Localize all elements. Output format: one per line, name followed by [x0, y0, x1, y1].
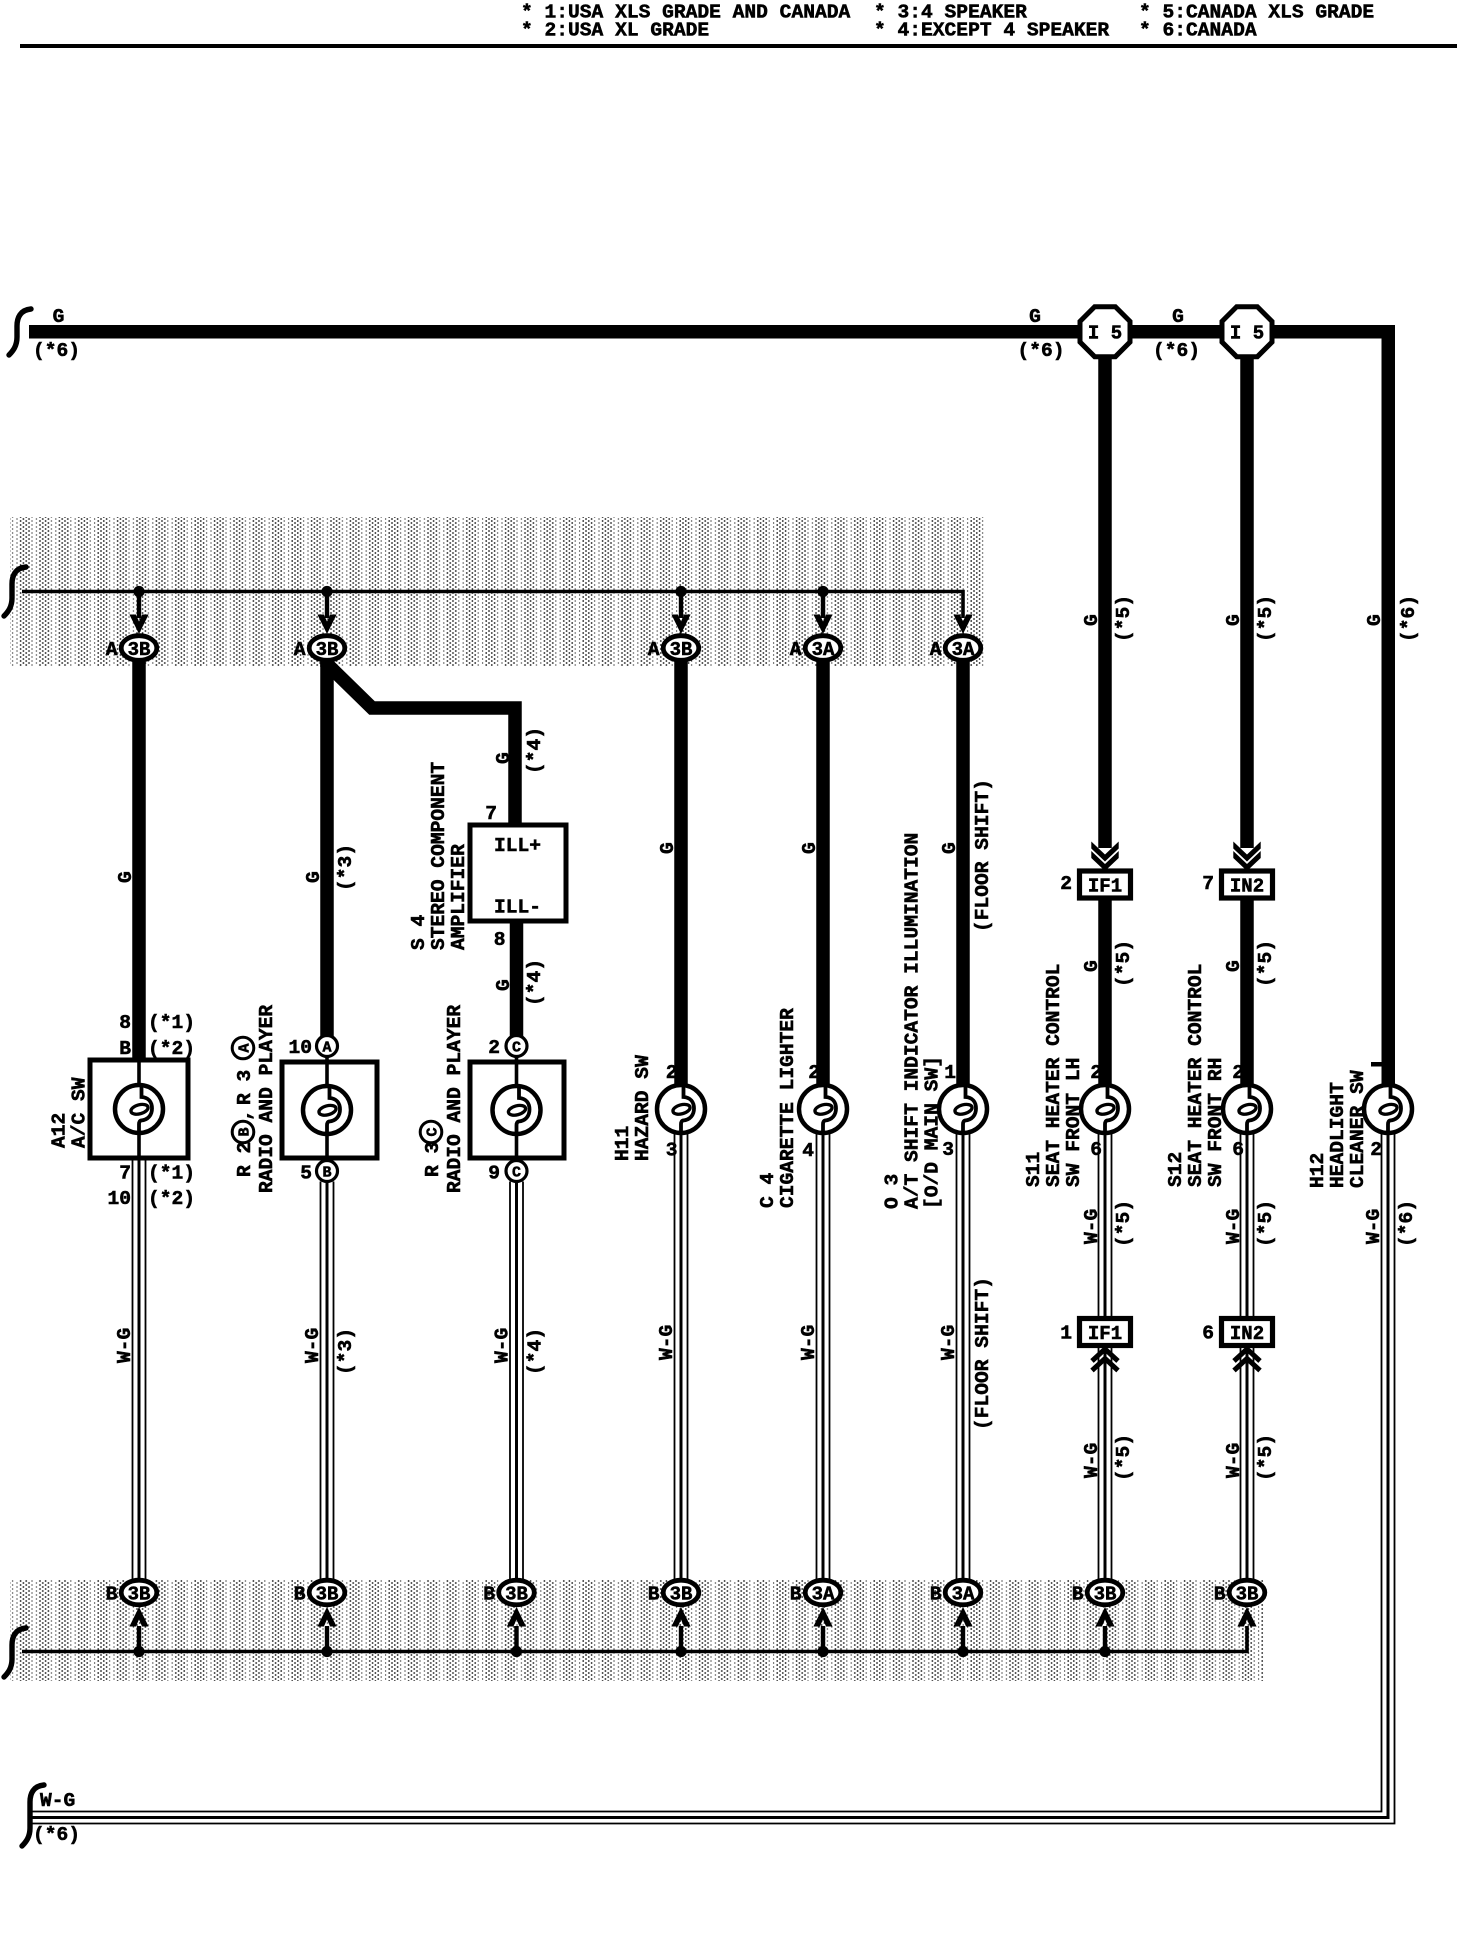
label G wire amp lower — [493, 979, 515, 991]
svg-text:HAZARD SW: HAZARD SW — [632, 1055, 654, 1161]
branch wire bottom band C6 — [961, 1626, 965, 1652]
svg-text:7: 7 — [1202, 873, 1214, 895]
svg-text:7: 7 — [485, 803, 497, 825]
svg-text:A: A — [930, 639, 942, 661]
svg-text:8: 8 — [119, 1012, 131, 1034]
svg-text:3B: 3B — [505, 1584, 528, 1606]
svg-text:A/T SHIFT INDICATOR ILLUMINATI: A/T SHIFT INDICATOR ILLUMINATION — [902, 833, 924, 1209]
pins seat heater LH — [1090, 1062, 1102, 1161]
svg-text:G: G — [493, 979, 515, 991]
label W-G (*5) wire S12 lower — [1223, 1434, 1277, 1481]
svg-text:3A: 3A — [952, 639, 975, 661]
svg-text:R 3: R 3 — [234, 1070, 256, 1105]
wire through radio R3 — [515, 1056, 519, 1161]
svg-text:ILL-: ILL- — [494, 897, 541, 919]
svg-text:3B: 3B — [316, 639, 339, 661]
wire G to A/C SW — [132, 659, 146, 1060]
wire G to radio R2 — [320, 659, 334, 1036]
arrow chevrons into IN2 — [1233, 842, 1260, 872]
svg-text:2: 2 — [808, 1062, 820, 1084]
svg-text:3B: 3B — [128, 639, 151, 661]
wire G amp to radio R3 — [510, 921, 524, 1036]
label (*4) wire amp upper — [524, 727, 546, 774]
label G wire S11 lower — [1081, 960, 1103, 972]
label (*6) top-left — [33, 340, 80, 362]
svg-text:6: 6 — [1202, 1323, 1214, 1345]
svg-text:C 4: C 4 — [757, 1172, 779, 1208]
svg-text:3A: 3A — [812, 639, 835, 661]
svg-text:9: 9 — [488, 1163, 500, 1185]
wire W-G from hazard — [675, 1134, 688, 1580]
svg-text:3A: 3A — [812, 1584, 835, 1606]
label W-G wire lighter — [798, 1325, 820, 1360]
svg-text:W-G: W-G — [938, 1325, 960, 1360]
svg-text:6: 6 — [1090, 1139, 1102, 1161]
connector B 3B at x=327 — [294, 1580, 345, 1605]
svg-text:(*5): (*5) — [1113, 1434, 1135, 1481]
svg-text:G: G — [1172, 306, 1184, 328]
branch wire bottom band C2 — [325, 1626, 329, 1652]
svg-text:(*5): (*5) — [1113, 1200, 1135, 1247]
svg-text:R 2: R 2 — [234, 1142, 256, 1177]
arrow into connector C2 — [317, 615, 336, 635]
svg-text:5: 5 — [300, 1163, 312, 1185]
svg-text:(*6): (*6) — [1153, 340, 1200, 362]
svg-text:3: 3 — [942, 1139, 954, 1161]
arrow into ground connector C3 — [507, 1607, 526, 1627]
svg-text:W-G: W-G — [1223, 1443, 1245, 1478]
svg-text:4: 4 — [802, 1140, 814, 1162]
label S11 seat heater control LH — [1023, 964, 1085, 1187]
svg-text:(*6): (*6) — [1398, 595, 1420, 642]
svg-text:H12: H12 — [1307, 1153, 1329, 1188]
label (*5) wire S11 lower — [1113, 940, 1135, 987]
junction dot top band C1 — [133, 586, 144, 597]
svg-text:W-G: W-G — [656, 1325, 678, 1360]
svg-text:* 4:EXCEPT 4 SPEAKER: * 4:EXCEPT 4 SPEAKER — [874, 20, 1109, 42]
svg-text:A: A — [237, 1043, 254, 1052]
svg-text:3B: 3B — [1236, 1584, 1259, 1606]
svg-text:3B: 3B — [316, 1584, 339, 1606]
wire W-G headlight cleaner run — [32, 1134, 1395, 1824]
junction dot top band C5 — [817, 586, 828, 597]
label W-G wire A12 — [114, 1328, 136, 1363]
lamp headlight cleaner SW — [1364, 1085, 1412, 1133]
label (FLOOR SHIFT) lower — [972, 1277, 994, 1430]
svg-text:1: 1 — [1060, 1323, 1072, 1345]
continuation brace bottom band — [4, 1628, 26, 1677]
pins A/T shift indicator — [942, 1062, 956, 1161]
svg-text:G: G — [1081, 960, 1103, 972]
svg-text:(*5): (*5) — [1113, 595, 1135, 642]
svg-text:(*1): (*1) — [148, 1163, 195, 1185]
svg-text:3B: 3B — [1094, 1584, 1117, 1606]
arrow into connector C1 — [129, 615, 148, 635]
label G wire A/T — [939, 842, 961, 854]
connector pin C radio R3 top — [488, 1036, 527, 1060]
connector IF1 upper — [1060, 871, 1130, 898]
radio R2 box — [282, 1062, 377, 1158]
branch wire bottom band C3 — [514, 1626, 518, 1652]
svg-text:(*2): (*2) — [148, 1038, 195, 1060]
svg-text:W-G: W-G — [302, 1328, 324, 1363]
svg-text:W-G: W-G — [1081, 1443, 1103, 1478]
svg-text:2: 2 — [666, 1062, 678, 1084]
svg-text:6: 6 — [1232, 1139, 1244, 1161]
svg-text:IN2: IN2 — [1230, 876, 1264, 898]
svg-text:(*4): (*4) — [524, 727, 546, 774]
label W-G wire A/T — [938, 1325, 960, 1360]
label (*6) bottom-left — [33, 1824, 80, 1846]
svg-text:W-G: W-G — [114, 1328, 136, 1363]
svg-text:3B: 3B — [128, 1584, 151, 1606]
svg-text:(*5): (*5) — [1255, 595, 1277, 642]
svg-text:2: 2 — [488, 1037, 500, 1059]
svg-text:(FLOOR SHIFT): (FLOOR SHIFT) — [972, 779, 994, 932]
connector A 3A (A/T feed) — [930, 636, 981, 661]
label W-G bottom-left — [40, 1790, 75, 1812]
svg-text:2: 2 — [1370, 1139, 1382, 1161]
junction dot bottom band C3 — [511, 1646, 522, 1657]
pin dash headlight cleaner — [1371, 1062, 1386, 1067]
svg-text:I 5: I 5 — [1088, 323, 1122, 345]
svg-text:R 3: R 3 — [422, 1142, 444, 1177]
hatched background band upper — [10, 517, 986, 666]
svg-text:G: G — [493, 752, 515, 764]
A/C SW box — [90, 1060, 188, 1158]
label G wire radio — [303, 871, 325, 883]
label O3 A/T shift indicator illumination — [882, 833, 944, 1209]
connector A 3B (A12 feed) — [106, 636, 157, 661]
arrow into ground connector C5 — [813, 1607, 832, 1627]
svg-text:A/C SW: A/C SW — [69, 1077, 91, 1148]
label H11 hazard SW — [612, 1055, 654, 1161]
wire G IN2 to S12 — [1240, 897, 1254, 1084]
label W-G (*5) wire S11 upper — [1081, 1200, 1135, 1247]
svg-text:(*6): (*6) — [33, 340, 80, 362]
svg-text:S12: S12 — [1165, 1152, 1187, 1187]
arrow into ground connector C2 — [317, 1607, 336, 1627]
svg-text:G: G — [1364, 614, 1386, 626]
label G wire S12 — [1223, 614, 1245, 626]
wire G drop S12 — [1240, 350, 1254, 848]
label G wire amp upper — [493, 752, 515, 764]
arrow chevrons from IN2 — [1234, 1349, 1260, 1371]
svg-text:(*5): (*5) — [1255, 1200, 1277, 1247]
svg-text:3B: 3B — [670, 639, 693, 661]
radio R3 box — [470, 1062, 564, 1158]
svg-text:(*4): (*4) — [524, 959, 546, 1006]
svg-text:B: B — [294, 1584, 306, 1606]
svg-text:SEAT HEATER CONTROL: SEAT HEATER CONTROL — [1185, 964, 1207, 1187]
svg-text:SW FRONT RH: SW FRONT RH — [1205, 1058, 1227, 1187]
svg-text:(*3): (*3) — [335, 844, 357, 891]
connector pin C radio R3 bottom — [488, 1161, 527, 1185]
label (*6) wire H12 — [1398, 595, 1420, 642]
svg-text:W-G: W-G — [1363, 1209, 1385, 1244]
svg-text:(*5): (*5) — [1255, 1434, 1277, 1481]
arrow into ground connector C1 — [129, 1607, 148, 1627]
svg-text:B: B — [322, 1165, 331, 1182]
label R2 radio and player — [232, 1005, 278, 1193]
label A12 A/C SW — [49, 1077, 91, 1148]
label W-G (*5) wire S11 lower — [1081, 1434, 1135, 1481]
label G wire A12 — [115, 871, 137, 883]
svg-text:3B: 3B — [670, 1584, 693, 1606]
pin 7 amplifier — [485, 803, 497, 825]
connector IN2 lower — [1202, 1319, 1272, 1346]
branch wire bottom band C1 — [137, 1626, 141, 1652]
label G wire S12 lower — [1223, 960, 1245, 972]
junction dot bottom band C4 — [675, 1646, 686, 1657]
branch wire top band C2 — [325, 592, 329, 619]
connector A 3B (hazard feed) — [648, 636, 699, 661]
svg-text:B: B — [930, 1584, 942, 1606]
wire G to hazard SW — [674, 659, 688, 1084]
arrow into ground connector C6 — [953, 1607, 972, 1627]
arrow into connector C5 — [813, 615, 832, 635]
label W-G (*6) wire H12 — [1363, 1200, 1418, 1247]
svg-text:G: G — [657, 842, 679, 854]
pin 8 amplifier — [494, 929, 506, 951]
label (*3) wire radio — [335, 844, 357, 891]
pins A/C SW upper — [119, 1012, 195, 1060]
legend rule — [20, 44, 1457, 48]
svg-text:B: B — [106, 1584, 118, 1606]
arrow chevrons into IF1 — [1091, 842, 1118, 872]
svg-text:W-G: W-G — [1223, 1209, 1245, 1244]
svg-text:SEAT HEATER CONTROL: SEAT HEATER CONTROL — [1043, 964, 1065, 1187]
svg-text:2: 2 — [1232, 1062, 1244, 1084]
wire through A/C SW — [137, 1060, 141, 1158]
connector A 3B (radio feed) — [294, 636, 345, 661]
amplifier S4 box — [470, 825, 566, 921]
svg-text:A: A — [106, 639, 118, 661]
legend note 3 — [1139, 2, 1374, 42]
svg-text:C: C — [425, 1127, 442, 1136]
svg-text:(*3): (*3) — [335, 1328, 357, 1375]
pins seat heater RH — [1232, 1062, 1244, 1161]
svg-text:B: B — [1072, 1584, 1084, 1606]
arrow into ground connector C8 — [1237, 1607, 1256, 1627]
connector B 3B at x=139 — [106, 1580, 157, 1605]
connector IF1 lower — [1060, 1319, 1130, 1346]
label S12 seat heater control RH — [1165, 964, 1227, 1187]
wire bus top band — [22, 592, 963, 619]
legend note 1 — [521, 2, 850, 42]
svg-text:(*5): (*5) — [1113, 940, 1135, 987]
svg-text:(*6): (*6) — [33, 1824, 80, 1846]
branch wire bottom band C4 — [679, 1626, 683, 1652]
label W-G (*3) wire radio — [302, 1328, 357, 1375]
continuation brace top-left — [9, 309, 31, 355]
junction dot bottom band C6 — [957, 1646, 968, 1657]
pins hazard SW — [666, 1062, 678, 1162]
connector B 3B at x=1105 — [1072, 1580, 1123, 1605]
svg-text:CLEANER SW: CLEANER SW — [1347, 1070, 1369, 1188]
svg-text:3A: 3A — [952, 1584, 975, 1606]
svg-text:(*5): (*5) — [1255, 940, 1277, 987]
svg-text:W-G: W-G — [492, 1328, 514, 1363]
wire W-G from radio R3 — [510, 1182, 523, 1581]
wire G to A/T SW — [956, 659, 970, 1084]
label G wire H12 — [1364, 614, 1386, 626]
branch wire top band C1 — [137, 592, 141, 619]
wire G to cig lighter — [816, 659, 830, 1084]
svg-text:[O/D MAIN SW]: [O/D MAIN SW] — [922, 1056, 944, 1209]
connector B 3A at x=823 — [790, 1580, 841, 1605]
label C4 cigarette lighter — [757, 1008, 799, 1208]
label G between I5 — [1172, 306, 1184, 328]
svg-text:IF1: IF1 — [1088, 1323, 1122, 1345]
junction dot bottom band C5 — [817, 1646, 828, 1657]
svg-text:B: B — [237, 1127, 254, 1136]
svg-text:10: 10 — [288, 1037, 312, 1059]
svg-text:G: G — [115, 871, 137, 883]
label G top-left — [53, 306, 65, 328]
svg-text:S11: S11 — [1023, 1152, 1045, 1187]
label (*6) between I5 — [1153, 340, 1200, 362]
wire W-G from radio R2 — [321, 1182, 334, 1581]
svg-text:S 4: S 4 — [408, 914, 430, 950]
svg-text:ILL+: ILL+ — [494, 835, 541, 857]
junction dot bottom band C7 — [1099, 1646, 1110, 1657]
junction connector I5 right — [1222, 307, 1272, 357]
connector pin B radio R2 — [300, 1161, 337, 1185]
lamp seat heater RH — [1223, 1085, 1271, 1133]
connector B 3A at x=963 — [930, 1580, 981, 1605]
label (FLOOR SHIFT) upper — [972, 779, 994, 932]
branch wire bottom band C5 — [821, 1626, 825, 1652]
arrow into connector C6 — [953, 615, 972, 635]
wire W-G from lighter — [817, 1134, 830, 1580]
svg-text:8: 8 — [494, 929, 506, 951]
wire through radio R2 — [325, 1056, 329, 1161]
svg-text:B: B — [790, 1584, 802, 1606]
svg-text:G: G — [1029, 306, 1041, 328]
hatched background band lower — [10, 1580, 1264, 1681]
svg-text:G: G — [1223, 960, 1245, 972]
lamp A/C SW — [115, 1085, 163, 1133]
arrow into ground connector C4 — [671, 1607, 690, 1627]
svg-text:2: 2 — [1090, 1062, 1102, 1084]
svg-text:A: A — [790, 639, 802, 661]
lamp radio R3 — [493, 1086, 541, 1134]
connector IN2 upper — [1202, 871, 1272, 898]
continuation brace top band — [4, 567, 26, 616]
continuation brace bottom-left — [22, 1785, 44, 1846]
junction connector I5 left — [1080, 307, 1130, 357]
lamp A/T shift indicator — [939, 1085, 987, 1133]
wire W-G IF1 to band — [1099, 1346, 1112, 1581]
label W-G (*4) wire radio R3 — [492, 1328, 547, 1375]
wire W-G IN2 to band — [1241, 1346, 1254, 1581]
svg-text:B: B — [483, 1584, 495, 1606]
svg-text:G: G — [53, 306, 65, 328]
label W-G wire hazard — [656, 1325, 678, 1360]
svg-text:A: A — [322, 1040, 331, 1057]
label G wire hazard — [657, 842, 679, 854]
wire G branch to amplifier — [327, 660, 515, 825]
svg-text:CIGARETTE LIGHTER: CIGARETTE LIGHTER — [777, 1008, 799, 1208]
svg-text:A12: A12 — [49, 1113, 71, 1148]
svg-text:H11: H11 — [612, 1126, 634, 1161]
branch wire top band C4 — [679, 592, 683, 619]
svg-text:IN2: IN2 — [1230, 1323, 1264, 1345]
svg-text:HEADLIGHT: HEADLIGHT — [1327, 1082, 1349, 1188]
junction dot top band C2 — [321, 586, 332, 597]
wire G bus top — [29, 332, 1388, 1084]
legend note 2 — [874, 2, 1109, 42]
svg-text:* 6:CANADA: * 6:CANADA — [1139, 20, 1257, 42]
wire G drop S11 — [1098, 350, 1112, 848]
arrow chevrons from IF1 — [1092, 1349, 1118, 1371]
svg-text:G: G — [939, 842, 961, 854]
svg-text:G: G — [1223, 614, 1245, 626]
svg-text:G: G — [799, 842, 821, 854]
junction dot bottom band C1 — [133, 1646, 144, 1657]
label G wire lighter — [799, 842, 821, 854]
lamp radio R2 — [303, 1086, 351, 1134]
wire W-G S11 to IF1 — [1099, 1134, 1112, 1319]
svg-text:RADIO AND PLAYER: RADIO AND PLAYER — [444, 1005, 466, 1193]
label (*5) wire S11 — [1113, 595, 1135, 642]
svg-text:A: A — [294, 639, 306, 661]
svg-text:O 3: O 3 — [882, 1174, 904, 1209]
svg-text:STEREO COMPONENT: STEREO COMPONENT — [428, 762, 450, 950]
wire W-G S12 to IN2 — [1241, 1134, 1254, 1319]
label R3 radio and player — [420, 1005, 466, 1193]
junction dot top band C4 — [675, 586, 686, 597]
label (*6) before I5 — [1017, 340, 1064, 362]
svg-text:* 2:USA XL GRADE: * 2:USA XL GRADE — [521, 20, 709, 42]
connector B 3B at x=516.5 — [483, 1580, 534, 1605]
svg-text:AMPLIFIER: AMPLIFIER — [448, 844, 470, 950]
svg-text:G: G — [1081, 614, 1103, 626]
svg-text:W-G: W-G — [40, 1790, 75, 1812]
pins A/C SW lower — [107, 1163, 195, 1211]
svg-text:10: 10 — [107, 1188, 131, 1210]
branch wire bottom band C7 — [1103, 1626, 1107, 1652]
svg-text:2: 2 — [1060, 873, 1072, 895]
svg-text:G: G — [303, 871, 325, 883]
pin 2 headlight cleaner — [1370, 1139, 1382, 1161]
svg-text:(*4): (*4) — [525, 1328, 547, 1375]
svg-text:C: C — [512, 1040, 521, 1057]
label (*5) wire S12 — [1255, 595, 1277, 642]
wire G IF1 to S11 — [1098, 897, 1112, 1084]
svg-text:(*2): (*2) — [148, 1188, 195, 1210]
arrow into connector C4 — [671, 615, 690, 635]
lamp seat heater LH — [1081, 1085, 1129, 1133]
label (*4) wire amp lower — [524, 959, 546, 1006]
svg-text:A: A — [648, 639, 660, 661]
svg-text:RADIO AND PLAYER: RADIO AND PLAYER — [256, 1005, 278, 1193]
svg-text:W-G: W-G — [798, 1325, 820, 1360]
label H12 headlight cleaner SW — [1307, 1070, 1369, 1188]
svg-text:(FLOOR SHIFT): (FLOOR SHIFT) — [972, 1277, 994, 1430]
wire W-G from A/T — [957, 1134, 970, 1580]
label G before I5 — [1029, 306, 1041, 328]
lamp hazard SW — [657, 1085, 705, 1133]
svg-text:7: 7 — [119, 1163, 131, 1185]
svg-text:B: B — [1214, 1584, 1226, 1606]
connector B 3B at x=681 — [648, 1580, 699, 1605]
connector B 3B at x=1247 — [1214, 1580, 1265, 1605]
svg-text:SW FRONT LH: SW FRONT LH — [1063, 1058, 1085, 1187]
svg-text:B: B — [119, 1038, 131, 1060]
label S4 stereo component amplifier — [408, 762, 470, 950]
